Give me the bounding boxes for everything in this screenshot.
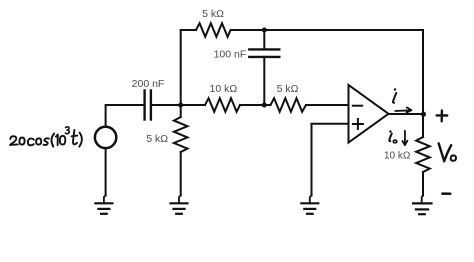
resistor R1 5k vertical: [174, 117, 188, 152]
wire output node to 10k load: [422, 114, 424, 137]
node junction dot A (cap/5k/feedback): [178, 103, 183, 108]
wire 100nF top stub: [263, 30, 265, 49]
op-amp plus symbol: [353, 119, 363, 129]
svg-text:5 kΩ: 5 kΩ: [202, 8, 224, 20]
wire top feedback left stub: [181, 29, 196, 31]
ground op-amp plus: [301, 196, 318, 214]
svg-text:100 nF: 100 nF: [214, 49, 247, 61]
ground source: [95, 196, 112, 214]
resistor R2 10k horizontal: [205, 98, 240, 112]
op-amp minus symbol: [353, 105, 362, 107]
wire op-amp output: [389, 113, 424, 115]
node junction dot top (5k/100nF): [262, 28, 267, 33]
handwritten label i_o: [389, 134, 392, 142]
resistor R4 10k vertical load: [416, 137, 430, 172]
wire feedback right vertical: [422, 30, 424, 114]
handwritten down arrow i_o: [402, 131, 407, 145]
wire 5k vertical to ground: [180, 152, 182, 196]
handwritten minus terminal: [442, 192, 450, 195]
handwritten current label i: [393, 93, 396, 103]
node junction dot B (10k/5k/100nF): [262, 103, 267, 108]
svg-text:200 nF: 200 nF: [132, 78, 165, 90]
svg-text:5 kΩ: 5 kΩ: [277, 83, 299, 95]
wire junction to 5k vertical: [180, 105, 182, 117]
svg-text:5 kΩ: 5 kΩ: [146, 133, 168, 145]
op-amp U1: [349, 85, 389, 143]
voltage source VS circle: [95, 127, 116, 148]
ground output: [413, 196, 431, 215]
ground under 5k: [171, 196, 188, 214]
capacitor C1 200 nF: [143, 91, 145, 120]
wire 5k to op-amp minus: [306, 104, 349, 106]
wire 100nF bottom stub: [263, 57, 265, 105]
handwritten arrow for i: [395, 107, 411, 112]
capacitor C2 100 nF: [249, 48, 279, 50]
resistor R3 5k horizontal: [271, 98, 307, 112]
wire op-amp plus input: [312, 124, 349, 196]
wire feedback left vertical: [180, 30, 182, 105]
svg-text:10 kΩ: 10 kΩ: [384, 151, 411, 162]
wire top feedback right: [231, 29, 423, 31]
handwritten label Vo: [439, 143, 452, 161]
wire cap to 10k: [151, 104, 205, 106]
wire source top: [106, 105, 145, 127]
wire source bottom: [105, 148, 107, 196]
resistor R_f 5k (top feedback): [196, 23, 231, 37]
wire 10k load to ground: [422, 172, 424, 196]
node junction dot output: [421, 112, 426, 117]
handwritten source label 20cos(10^3 t): [10, 127, 82, 147]
handwritten plus terminal: [437, 111, 448, 122]
wire 10k to 5k: [240, 104, 271, 106]
svg-text:10 kΩ: 10 kΩ: [210, 83, 238, 95]
